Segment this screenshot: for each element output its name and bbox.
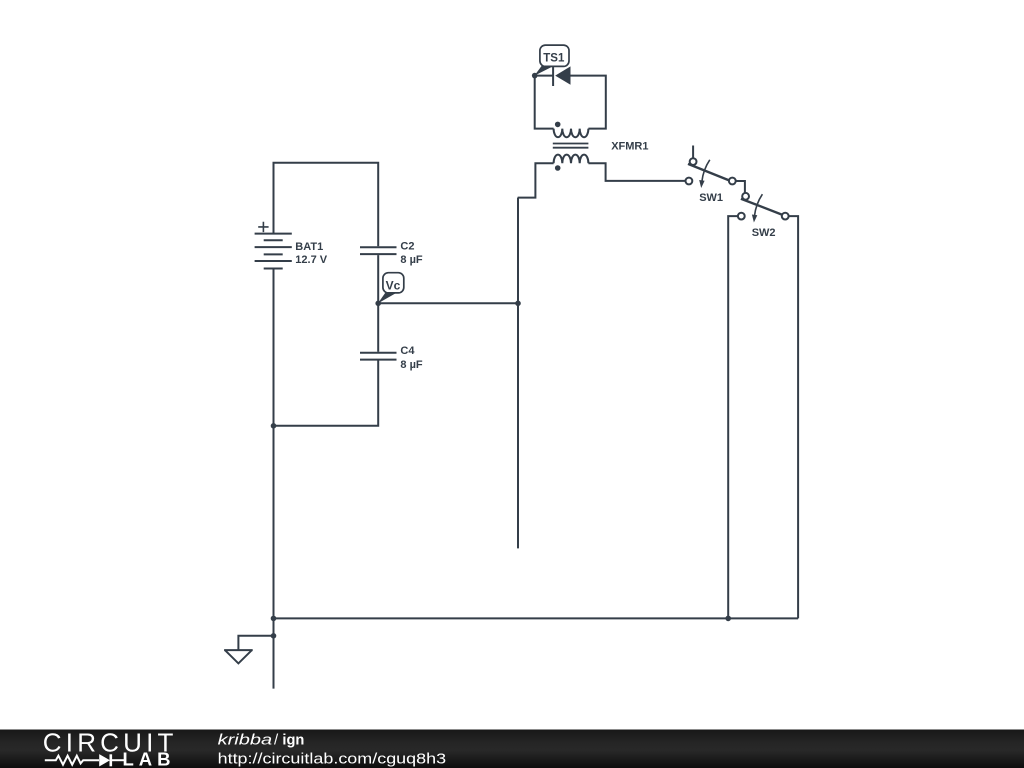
wire node Vc to C4 (377, 303, 379, 352)
transformer XFMR1 core (553, 144, 589, 148)
switch SW1 blade (688, 164, 729, 180)
junction dot node Vc-518 (515, 301, 521, 307)
node Vc flag pointer (378, 293, 397, 304)
svg-text:http://circuitlab.com/cguq8h3: http://circuitlab.com/cguq8h3 (218, 751, 447, 768)
svg-text:XFMR1: XFMR1 (611, 141, 648, 153)
thyristor TS1 cathode bar (552, 66, 554, 86)
wire TS1 anode (535, 75, 553, 77)
svg-text:TS1: TS1 (543, 52, 565, 64)
switch SW2 terminal right (782, 213, 789, 220)
svg-text:C2: C2 (400, 240, 414, 252)
switch SW2 arrow (755, 194, 763, 216)
logo resistor-diode glyph (45, 754, 126, 766)
transformer XFMR1 primary winding (554, 129, 589, 138)
svg-text:Vc: Vc (386, 278, 401, 292)
transformer XFMR1 secondary winding (554, 155, 589, 164)
wire vertical open stub x=518 (517, 198, 519, 549)
transformer XFMR1 primary polarity dot (555, 122, 561, 128)
capacitor C4 label (400, 345, 423, 371)
junction dot C4/battery bottom (271, 423, 277, 429)
svg-text:8 µF: 8 µF (400, 254, 423, 266)
capacitor C2 (360, 247, 397, 254)
wire TS1 loop right side (571, 76, 606, 129)
wire SW2 right terminal down right side (789, 216, 798, 618)
footer bar (0, 730, 1024, 768)
wire bottom rail (274, 617, 799, 619)
TS1 flag pointer (534, 65, 556, 76)
svg-text:LAB: LAB (123, 749, 176, 768)
switch SW1 terminal left (686, 178, 693, 185)
node Vc flag box (383, 273, 404, 293)
svg-text:12.7 V: 12.7 V (295, 254, 327, 266)
junction dot bottom rail SW2 (725, 616, 731, 622)
capacitor C4 (360, 353, 397, 360)
junction dot bottom rail left (271, 616, 277, 622)
svg-text:BAT1: BAT1 (295, 241, 323, 253)
node Vc junction dot (375, 301, 381, 307)
TS1 node junction dot (532, 73, 538, 79)
wire battery negative rail down (273, 269, 275, 689)
wire battery top to C2 (274, 163, 379, 247)
wire SW2 left terminal down to bottom rail (728, 216, 738, 618)
svg-text:C4: C4 (400, 345, 415, 357)
wire SW1 right terminal to SW2 top (736, 181, 745, 193)
svg-text:SW1: SW1 (699, 192, 723, 204)
svg-text:SW2: SW2 (752, 227, 776, 239)
junction dot ground tap (271, 633, 277, 639)
svg-text:kribba: kribba (218, 731, 273, 748)
switch SW1 arrow (702, 160, 710, 182)
transformer XFMR1 secondary polarity dot (555, 165, 561, 171)
switch SW1 terminal top (690, 158, 697, 165)
battery BAT1 (255, 234, 292, 269)
svg-text:8 µF: 8 µF (400, 359, 423, 371)
ground (224, 650, 253, 663)
TS1 flag box (540, 45, 569, 66)
svg-text:ign: ign (282, 731, 304, 748)
switch SW2 terminal left (738, 213, 745, 220)
thyristor TS1 triangle (555, 66, 570, 84)
battery label BAT1 12.7 V (295, 241, 327, 266)
wire transformer secondary right pin to SW1 (588, 163, 685, 181)
wire ground tap (238, 636, 273, 650)
switch SW1 terminal right (729, 178, 736, 185)
wire transformer secondary left pin (518, 163, 554, 197)
wire C2 bottom to node Vc (377, 255, 379, 302)
wire C4 bottom to battery negative (274, 360, 379, 426)
wire node Vc to node at x=518 (378, 302, 518, 304)
switch SW2 blade (741, 199, 782, 215)
capacitor C2 label (400, 240, 423, 266)
wire TS1 loop left side (535, 76, 554, 129)
wire SW1 top stub (692, 146, 694, 159)
battery plus sign (258, 222, 268, 232)
switch SW2 terminal top (742, 193, 749, 200)
